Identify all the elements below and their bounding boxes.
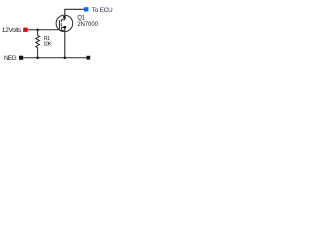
- junction body/source: [63, 26, 66, 29]
- wire drain to ECU: [65, 9, 84, 15]
- wire source to NEG: [64, 32, 66, 58]
- svg-text:10K: 10K: [43, 42, 52, 48]
- wire 12V to gate: [28, 29, 59, 31]
- svg-text:2N7000: 2N7000: [77, 22, 98, 28]
- port NEG: [19, 56, 23, 60]
- port To ECU: [84, 7, 88, 11]
- junction node R1/NEG: [36, 56, 39, 59]
- port NEG rail end: [87, 56, 91, 60]
- junction drain pin: [63, 16, 65, 19]
- resistor R1: [36, 30, 40, 58]
- transistor Q1: [56, 15, 73, 32]
- port 12Volts: [23, 28, 27, 32]
- svg-text:To ECU: To ECU: [92, 7, 113, 14]
- junction node gate/R1: [36, 28, 39, 31]
- wire NEG rail: [23, 57, 86, 59]
- svg-text:Q1: Q1: [77, 16, 85, 22]
- junction node source/NEG: [64, 56, 67, 59]
- svg-text:12Volts: 12Volts: [2, 27, 22, 34]
- svg-text:NEG: NEG: [4, 55, 17, 62]
